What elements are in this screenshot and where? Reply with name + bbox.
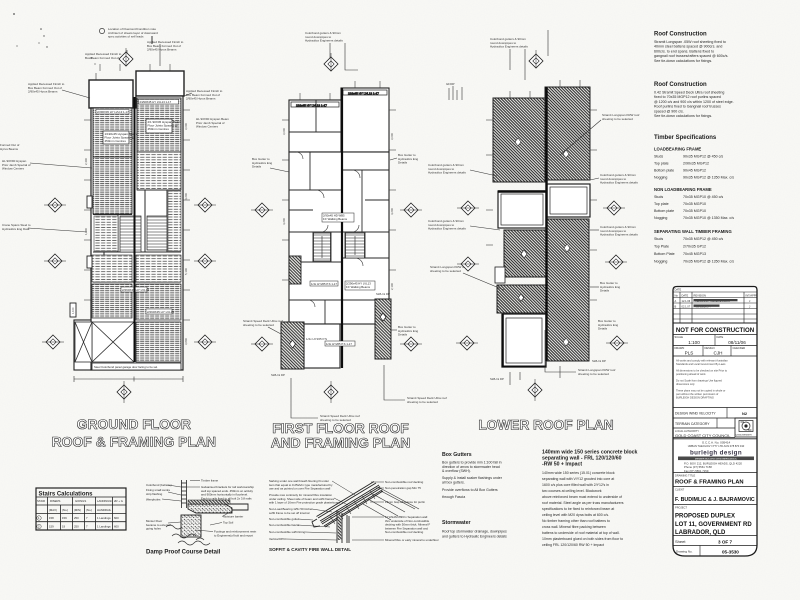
svg-text:4,200: 4,200 (282, 218, 286, 225)
svg-text:use and as pointed on over Fir: use and as pointed on over Fire Separati… (269, 487, 331, 491)
svg-text:N2: N2 (742, 411, 748, 416)
svg-text:SWH & DP: SWH & DP (376, 292, 390, 296)
svg-text:sheeting to be selected: sheeting to be selected (578, 372, 609, 376)
svg-text:600: 600 (114, 525, 119, 529)
left lower box gutter hatch column (281, 322, 304, 369)
bottom middle room (304, 324, 340, 368)
svg-text:1600 c/s plus core filled wall: 1600 c/s plus core filled wall with 2/Y1… (542, 483, 609, 487)
svg-text:No: No (675, 294, 679, 298)
svg-text:158: 158 (49, 516, 54, 520)
svg-text:Each to rails fixed to all bol: Each to rails fixed to all bolt 2x 3.8 n… (201, 496, 252, 500)
right box gutter hatch column (375, 299, 391, 359)
svg-text:Details: Details (398, 161, 408, 165)
svg-text:2,400: 2,400 (84, 158, 88, 165)
sheet row (673, 545, 757, 547)
svg-text:No timber framing other than r: No timber framing other than roof batten… (542, 519, 610, 523)
scale/date row (675, 335, 746, 350)
svg-text:70x35 MGP10: 70x35 MGP10 (683, 209, 706, 213)
svg-text:RISERS: RISERS (50, 499, 61, 503)
stair first floor left (314, 233, 331, 261)
svg-text:1/4x HY265 P.S: 1/4x HY265 P.S (306, 337, 327, 341)
dark hatch mid-left (504, 230, 546, 277)
svg-text:Damp Proof Course Detail: Damp Proof Course Detail (146, 550, 221, 556)
svg-text:specifications to be fixed to: specifications to be fixed to reinforced… (542, 507, 614, 511)
svg-text:Window Centers: Window Centers (196, 125, 219, 129)
stair arrows (321, 236, 323, 258)
title block (673, 287, 757, 557)
svg-text:PLS: PLS (685, 351, 694, 356)
svg-text:Top Plate: Top Plate (654, 245, 669, 249)
logo box right (735, 418, 757, 437)
svg-text:Steel Colorbond panel garage d: Steel Colorbond panel garage door facing… (94, 365, 158, 369)
door arcs plan2 (296, 152, 363, 307)
svg-text:2,100: 2,100 (390, 283, 394, 290)
svg-text:Nogging: Nogging (654, 260, 667, 264)
roof plane band (317, 482, 384, 528)
svg-text:LABRADOR, QLD: LABRADOR, QLD (675, 530, 726, 536)
svg-text:spaced @ 900 c/s.: spaced @ 900 c/s. (654, 109, 684, 113)
svg-text:2/290X45 HY LVL13 1-17: 2/290X45 HY LVL13 1-17 (97, 110, 129, 114)
svg-text:Non-combustible soffit lining: Non-combustible soffit lining (269, 530, 305, 534)
internal walls plan2 (289, 100, 389, 324)
svg-text:spec activities of self leads: spec activities of self leads (108, 35, 144, 39)
svg-text:and gutters to Hydraulic Engin: and gutters to Hydraulic Engineers detai… (442, 535, 507, 539)
svg-text:159: 159 (49, 525, 54, 529)
diamond markers row y~343 (42, 335, 64, 349)
left label column (269, 479, 340, 541)
drawing title row (673, 486, 757, 488)
diamond markers row y~205 (44, 198, 66, 212)
tick marks around plan3 (486, 80, 597, 300)
svg-text:DATE: DATE (675, 288, 682, 292)
damp proof course detail (146, 479, 257, 556)
main body outline (91, 96, 183, 370)
svg-text:2R + G: 2R + G (114, 499, 123, 503)
svg-text:INT/APPR: INT/APPR (746, 294, 758, 298)
diamond markers bottom (117, 381, 131, 403)
outline left upper (289, 100, 341, 152)
wall below (337, 510, 349, 543)
svg-text:4,200: 4,200 (184, 193, 188, 200)
svg-text:QBSA MEMBER: QBSA MEMBER (736, 434, 753, 437)
svg-text:TERRAIN CATEGORY: TERRAIN CATEGORY (675, 422, 710, 426)
mid zone internal walls (93, 190, 181, 282)
stud wall ladder (182, 480, 187, 508)
svg-text:DESIGN: DESIGN (705, 346, 715, 350)
perimeter ticks plan2 (282, 81, 396, 280)
heading 140mm separating wall (542, 450, 638, 468)
right specification text column (654, 32, 734, 264)
svg-text:Weepholes: Weepholes (146, 498, 161, 502)
svg-text:gangnail roof trusses/rafters: gangnail roof trusses/rafters spaced @ 6… (654, 54, 728, 58)
svg-text:BURLEIGH DESIGN DRAFTING: BURLEIGH DESIGN DRAFTING (676, 395, 714, 399)
opposite roof thin lines (363, 487, 419, 520)
svg-text:sheeting to be selected: sheeting to be selected (602, 117, 633, 121)
scale/date row (673, 345, 757, 347)
address lines (684, 462, 742, 473)
svg-text:Nogging: Nogging (654, 176, 667, 180)
diamond marker plan3 top (529, 50, 543, 68)
dark roof region upper-left (493, 98, 545, 182)
svg-text:(No.): (No.) (62, 508, 68, 512)
svg-text:CLIENT: CLIENT (675, 488, 685, 492)
svg-text:3,600: 3,600 (282, 128, 286, 135)
upper mid label (325, 341, 355, 346)
svg-text:Hydraulics Engineers details: Hydraulics Engineers details (490, 45, 528, 49)
svg-text:2/70x35 GP12: 2/70x35 GP12 (683, 245, 706, 249)
stairs calculations table (36, 488, 126, 530)
overall dimension line under plan 1 (74, 376, 183, 382)
svg-text:PROJECT: PROJECT (675, 506, 688, 510)
svg-text:Sheet: Sheet (675, 539, 686, 544)
svg-text:GROUND FLOOR: GROUND FLOOR (77, 416, 191, 432)
svg-text:ROOF & FRAMING PLAN: ROOF & FRAMING PLAN (52, 434, 216, 450)
header strip labels (96, 110, 129, 115)
svg-text:70x35 MGP10 @ 1350 Max. c/s: 70x35 MGP10 @ 1350 Max. c/s (683, 216, 734, 220)
drawn row (673, 355, 757, 357)
gutter at eave (312, 519, 320, 527)
svg-text:Details: Details (398, 333, 408, 337)
svg-text:Box Gutters: Box Gutters (442, 452, 472, 458)
svg-text:Non-combustible fascia: Non-combustible fascia (269, 523, 299, 527)
svg-text:All dimensions to be checked o: All dimensions to be checked on site Pri… (676, 369, 728, 373)
svg-text:roof material. Steel angle as: roof material. Steel angle as per truss … (542, 501, 624, 505)
svg-text:4,200: 4,200 (390, 208, 394, 215)
svg-text:CJH: CJH (714, 351, 723, 356)
svg-text:DRAWN: DRAWN (675, 346, 685, 350)
svg-text:5,100: 5,100 (184, 268, 188, 275)
outer border (673, 287, 757, 557)
svg-text:SWH & DP: SWH & DP (271, 373, 285, 377)
svg-text:08/11/06: 08/11/06 (728, 340, 746, 345)
svg-text:-RW 50 + Impact: -RW 50 + Impact (542, 462, 582, 468)
marker inside right hatch (380, 313, 386, 321)
bottom leaders plan3 (510, 330, 576, 385)
svg-text:2/290X45 HY LVL13: 2/290X45 HY LVL13 (122, 288, 149, 292)
svg-text:Roof top stormwater drainage,: Roof top stormwater drainage, downpipes (442, 530, 507, 534)
separating wall dark line plan3 (545, 87, 547, 361)
svg-text:Top plate: Top plate (654, 162, 669, 166)
svg-text:70x35 MGP10 @ 450 c/s: 70x35 MGP10 @ 450 c/s (683, 195, 723, 199)
beam label box left (103, 131, 129, 144)
white roof box left (lower) (502, 314, 546, 367)
svg-text:DRAWING TITLE: DRAWING TITLE (675, 474, 695, 478)
dark hatch left band lower (497, 285, 547, 313)
party wall plan2 (341, 88, 343, 368)
design wind velocity row (673, 417, 757, 419)
svg-text:cross wall. Mineral fibre pack: cross wall. Mineral fibre packing betwee… (542, 525, 606, 529)
svg-text:soffit frame to be set off int: soffit frame to be set off internal (269, 511, 310, 515)
svg-text:FIRST FLOOR ROOF: FIRST FLOOR ROOF (272, 420, 409, 436)
diamond markers row y~262 (44, 254, 66, 268)
svg-text:(MAX): (MAX) (49, 508, 57, 512)
svg-text:140mm wide 150 series (15.01): 140mm wide 150 series (15.01) concrete b… (542, 471, 615, 475)
svg-text:Hydraulics Eng Data: Hydraulics Eng Data (2, 227, 30, 231)
svg-text:F.F Walking Beams: F.F Walking Beams (346, 285, 371, 289)
small left protrusions windows (70, 36, 152, 317)
svg-text:2/90x35 MGP12: 2/90x35 MGP12 (683, 162, 709, 166)
svg-text:Timber Specifications: Timber Specifications (654, 135, 717, 141)
svg-text:REVISION: REVISION (694, 294, 707, 298)
svg-text:GOINGS: GOINGS (75, 499, 86, 503)
diamond marker plan1 top (119, 48, 133, 66)
svg-text:AND FRAMING PLAN: AND FRAMING PLAN (271, 436, 411, 451)
svg-text:URBAN THEOLOGY PTY LTD ACN 078: URBAN THEOLOGY PTY LTD ACN 078 870 010 (688, 444, 745, 448)
svg-text:Colorbond (behave): Colorbond (behave) (146, 483, 172, 487)
slab top hatch strip (188, 500, 230, 504)
svg-text:Bottom plate: Bottom plate (654, 209, 674, 213)
svg-text:SWH & DP: SWH & DP (490, 377, 504, 381)
garage door strip (92, 363, 181, 370)
svg-text:All works and comply with rele: All works and comply with relevant Austr… (676, 359, 728, 363)
dark text rows in revision table (694, 299, 738, 301)
svg-text:ROOF & FRAMING PLAN: ROOF & FRAMING PLAN (675, 480, 744, 486)
rafter hatch in band (330, 491, 375, 524)
revision table texts (675, 288, 758, 309)
svg-text:Top plate: Top plate (654, 202, 669, 206)
svg-text:These plans may not be copied: These plans may not be copied in whole o… (676, 389, 725, 393)
main body (289, 152, 389, 324)
svg-text:See tie-down calculations for: See tie-down calculations for fixings. (654, 114, 712, 118)
svg-text:Non-combustible gutter: Non-combustible gutter (269, 517, 299, 521)
svg-text:Roof Construction: Roof Construction (654, 32, 707, 38)
svg-text:sheeting to be selected: sheeting to be selected (407, 400, 438, 404)
hatched joist region upper-left (93, 98, 181, 214)
svg-text:1:100: 1:100 (688, 340, 700, 345)
svg-text:Box Beam Formed Out of: Box Beam Formed Out of (85, 56, 119, 60)
svg-text:Hydraulics Engineers details: Hydraulics Engineers details (428, 227, 466, 231)
svg-text:40mm steel battens spaced @ 90: 40mm steel battens spaced @ 900crs. and (654, 45, 722, 49)
diamond marker plan2 top (324, 53, 338, 71)
svg-text:Provide overflows to All Box G: Provide overflows to All Box Gutters (442, 488, 498, 492)
svg-text:02.1.07: 02.1.07 (682, 305, 691, 309)
terrain category row (673, 427, 735, 429)
svg-text:SOFFIT & CAVITY FIRE WALL DETA: SOFFIT & CAVITY FIRE WALL DETAIL (269, 547, 351, 552)
bottom-left garage extension (74, 320, 91, 370)
svg-text:Standards and Local Government: Standards and Local Government By-Laws (676, 362, 726, 366)
perimeter tick marks plan 1 (84, 64, 190, 320)
svg-text:600crs. to end spans. Batten: 600crs. to end spans. Battens fixed to (654, 49, 714, 53)
bottom middle note columns (442, 450, 638, 548)
svg-text:19: 19 (62, 525, 66, 529)
svg-text:600: 600 (114, 516, 119, 520)
svg-text:12.1.06: 12.1.06 (682, 299, 691, 303)
svg-text:ceiling FRL 120/120/60 RW 50 +: ceiling FRL 120/120/60 RW 50 + Impact (542, 543, 604, 547)
svg-text:NON LOADBEARING FRAME: NON LOADBEARING FRAME (654, 187, 712, 192)
svg-text:Studs: Studs (654, 195, 663, 199)
svg-text:Hydraulics Engineers details: Hydraulics Engineers details (600, 181, 638, 185)
dark roof region upper-right (545, 87, 590, 180)
svg-text:15mm Gap allowance for purlin: 15mm Gap allowance for purlin (385, 500, 425, 504)
bottom right room hatch (136, 322, 181, 362)
svg-text:2/90x45 Hyrus Beams: 2/90x45 Hyrus Beams (28, 90, 58, 94)
svg-text:2/90x45 Hyrus Beams: 2/90x45 Hyrus Beams (186, 97, 216, 101)
svg-text:(MIN): (MIN) (74, 508, 81, 512)
scan speckles top-left (13, 13, 96, 65)
left labels (146, 483, 172, 531)
stair ground floor left (120, 216, 141, 252)
top parapet strips (291, 90, 387, 107)
scan noise overlay (0, 0, 1, 1)
svg-text:ceiling level with M20 dyna bo: ceiling level with M20 dyna bolts at 600… (542, 513, 609, 517)
local authority row (673, 437, 735, 439)
dark hatch right column tall (547, 219, 589, 361)
svg-text:159: 159 (62, 516, 67, 520)
GF/DP ticks top-left of plan3 (449, 86, 462, 100)
svg-text:Top Soil: Top Soil (223, 521, 234, 525)
svg-text:1,100: 1,100 (71, 307, 75, 314)
svg-text:2/90x45 Hyrus Beams: 2/90x45 Hyrus Beams (147, 48, 177, 52)
svg-text:LOWER ROOF PLAN: LOWER ROOF PLAN (478, 418, 613, 433)
svg-text:two courses at ceiling level.: two courses at ceiling level. Blockwork (542, 489, 602, 493)
vertical dim text sides plan2 (282, 128, 394, 290)
svg-text:05-3530: 05-3530 (722, 550, 739, 555)
svg-text:3,600: 3,600 (390, 133, 394, 140)
annotation leader top mid (96, 44, 160, 80)
thick left edge of lower box (502, 314, 504, 367)
svg-text:Hyrus Beams: Hyrus Beams (0, 147, 19, 151)
svg-text:with 1 layer of 16mm Fire prot: with 1 layer of 16mm Fire protection gra… (269, 501, 340, 505)
svg-text:Bottom plate: Bottom plate (654, 169, 674, 173)
svg-text:1,800: 1,800 (84, 228, 88, 235)
ground squiggles (166, 525, 210, 545)
svg-text:90x35 MGP12 @ 450 c/s: 90x35 MGP12 @ 450 c/s (683, 155, 723, 159)
white roof box left (upper) (498, 191, 546, 228)
hatched joist region upper-right (137, 98, 181, 152)
svg-text:LANDINGS/: LANDINGS/ (97, 499, 112, 503)
svg-text:Hydraulics Engineers details: Hydraulics Engineers details (428, 171, 466, 175)
party wall plan1 (134, 97, 136, 362)
svg-text:Details: Details (598, 327, 608, 331)
svg-text:Do not Scale from drawings U: Do not Scale from drawings Use figured (676, 379, 722, 383)
svg-text:450mm Centres: 450mm Centres (105, 139, 127, 143)
svg-text:sheeting to be selected: sheeting to be selected (243, 323, 274, 327)
NOT FOR CONSTRUCTION band (673, 334, 757, 336)
small rooms hatch mid (94, 216, 118, 251)
svg-text:70x45 MGP13: 70x45 MGP13 (683, 252, 706, 256)
svg-text:Hydraulics Engineers details: Hydraulics Engineers details (600, 233, 638, 237)
svg-text:& overflow (SWH).: & overflow (SWH). (442, 469, 471, 473)
svg-text:Roof purlins fixed to Gangnail: Roof purlins fixed to Gangnail roof trus… (654, 105, 721, 109)
BSA logo (739, 421, 753, 432)
stair first floor right (346, 233, 365, 258)
footing block (181, 515, 201, 537)
walking beams label upper (322, 213, 354, 222)
svg-text:(No.): (No.) (86, 508, 92, 512)
top-middle roof outline (136, 71, 184, 96)
project row (673, 535, 757, 537)
svg-text:sheeting to be selected: sheeting to be selected (430, 269, 461, 273)
white roof box right (upper) (547, 184, 590, 217)
svg-text:1 Landings: 1 Landings (97, 525, 111, 529)
stair ground floor right (147, 216, 167, 250)
svg-text:Moisture barrier: Moisture barrier (223, 515, 243, 519)
revision table rows (673, 292, 757, 323)
svg-text:PROPOSED DUPLEX: PROPOSED DUPLEX (675, 514, 735, 520)
svg-text:Vertical DPC: Vertical DPC (269, 537, 285, 541)
svg-text:450mm Centres: 450mm Centres (148, 127, 170, 131)
svg-text:Stairs Calculations: Stairs Calculations (39, 492, 94, 498)
lower rooms hatch (92, 255, 132, 282)
svg-text:Details: Details (600, 289, 610, 293)
svg-text:strip flashing: strip flashing (146, 492, 163, 496)
hatched joist region mid-right (137, 152, 181, 190)
slab (188, 504, 232, 513)
svg-text:2/290X45 HY LVL13 1-17: 2/290X45 HY LVL13 1-17 (140, 100, 172, 104)
svg-text:90x35 MGP12 @ 1350 Max. c/s: 90x35 MGP12 @ 1350 Max. c/s (683, 176, 734, 180)
svg-text:70x35 MGP12 @ 1350 Max. c/s: 70x35 MGP12 @ 1350 Max. c/s (683, 260, 734, 264)
svg-text:fixed to 70x35 MGP12 roof purl: fixed to 70x35 MGP12 roof purlins spaced (654, 95, 721, 99)
svg-text:burleigh design: burleigh design (690, 450, 742, 457)
svg-text:3,600: 3,600 (184, 123, 188, 130)
svg-text:Timber frame: Timber frame (201, 479, 218, 483)
svg-text:@ 1200 c/s and 900 c/s within: @ 1200 c/s and 900 c/s within 1200 of st… (654, 100, 734, 104)
outline right upper (341, 88, 389, 152)
top-left garage roof outline (89, 80, 133, 108)
svg-text:2/290X45 HY LVL13: 2/290X45 HY LVL13 (147, 310, 174, 314)
svg-text:going holes: going holes (146, 527, 161, 531)
svg-text:DESIGN WIND VELOCITY: DESIGN WIND VELOCITY (675, 412, 716, 416)
beam label box plan2 (345, 281, 375, 290)
svg-text:A: A (675, 299, 677, 303)
svg-text:250: 250 (74, 516, 79, 520)
plan 2: first floor roof and framing plan (289, 88, 389, 368)
svg-text:GOLD COAST CITY COUNCIL: GOLD COAST CITY COUNCIL (675, 433, 731, 438)
svg-text:Non-combustible roof decking: Non-combustible roof decking (385, 480, 424, 484)
svg-text:B: B (675, 305, 677, 309)
svg-text:SCALE: SCALE (675, 335, 684, 339)
svg-text:250: 250 (74, 525, 79, 529)
vertical dimension text right of plan1 (84, 123, 188, 345)
svg-text:Roof Construction: Roof Construction (654, 82, 707, 88)
svg-text:1/4x HY265 P.S 1-17: 1/4x HY265 P.S 1-17 (326, 342, 352, 346)
member band (678, 457, 754, 461)
bottom garage room with X bracing (75, 322, 134, 362)
svg-text:MEMBER BUILDING DESIGNERS ASSO: MEMBER BUILDING DESIGNERS ASSOC (695, 457, 738, 460)
svg-text:separating wall with V/Y12 gro: separating wall with V/Y12 grouted into … (542, 477, 614, 481)
svg-text:LOADBEARING FRAME: LOADBEARING FRAME (654, 147, 701, 152)
plan 1: ground floor roof & framing plan (74, 71, 184, 370)
svg-text:226x45 HY LVL13 1-17: 226x45 HY LVL13 1-17 (348, 91, 379, 95)
svg-text:3 OF 7: 3 OF 7 (718, 540, 732, 545)
leader from bottom-left hatch to note below (291, 378, 318, 418)
svg-text:CHECKED: CHECKED (733, 346, 746, 350)
svg-text:Window Centers: Window Centers (2, 167, 25, 171)
right labels (201, 479, 257, 538)
burleigh design block bottom (673, 472, 757, 474)
svg-text:NOT FOR CONSTRUCTION: NOT FOR CONSTRUCTION (676, 327, 754, 334)
beam label box right (146, 119, 172, 133)
plan titles (outline lettering) (52, 416, 614, 451)
white markers inside dark areas (515, 138, 570, 346)
svg-text:1 Landings: 1 Landings (97, 516, 111, 520)
small upper-left hatch block (box gutter) (289, 256, 301, 284)
svg-text:0.42 Stramit Speed Deck Ultra: 0.42 Stramit Speed Deck Ultra roof sheet… (654, 91, 724, 95)
svg-text:70x35 MGP12 @ 450 c/s: 70x35 MGP12 @ 450 c/s (683, 237, 723, 241)
svg-text:SWH & DP: SWH & DP (592, 359, 606, 363)
svg-text:Fax (07) 5561 7159: Fax (07) 5561 7159 (684, 469, 709, 473)
svg-text:F. BUDIMLIC & J. BAJRAMOVIC: F. BUDIMLIC & J. BAJRAMOVIC (675, 497, 755, 503)
svg-text:to Engineers(of bolt and repor: to Engineers(of bolt and report (214, 533, 253, 537)
svg-text:through Fascia: through Fascia (442, 495, 465, 499)
svg-text:Hydraulics Engineers details: Hydraulics Engineers details (305, 39, 343, 43)
notes paragraphs (676, 359, 728, 400)
leader right bottom (384, 365, 405, 400)
svg-text:70x35 MGP10: 70x35 MGP10 (683, 202, 706, 206)
svg-text:STAIR: STAIR (37, 499, 45, 503)
svg-text:above reinforced beam must ext: above reinforced beam must extend to und… (542, 495, 622, 499)
svg-text:See tie-down calculations for: See tie-down calculations for fixings. (654, 59, 712, 63)
